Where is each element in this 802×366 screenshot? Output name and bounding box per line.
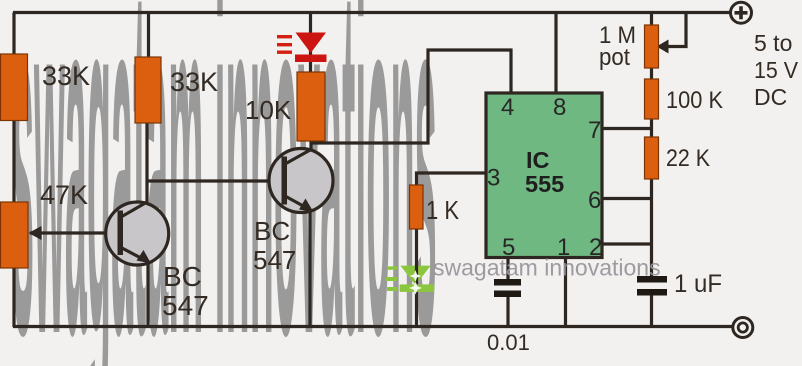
wire 100K to 22K (650, 117, 653, 139)
wire pin1 to bottom rail (564, 257, 567, 327)
svg-text:10K: 10K (245, 95, 292, 125)
svg-text:3: 3 (487, 165, 500, 192)
IC U1 555 (486, 93, 602, 258)
svg-text:47K: 47K (40, 180, 88, 210)
svg-text:8: 8 (553, 94, 566, 121)
wire pin5 to 0.01 cap (506, 257, 509, 281)
resistor 1K (410, 185, 424, 229)
wire Q1 base arrow line (30, 231, 120, 234)
wire LED column (309, 13, 312, 75)
svg-text:7: 7 (588, 117, 601, 144)
wire 1uF to bottom rail (650, 293, 653, 327)
svg-text:33K: 33K (42, 61, 90, 91)
wire 0.01 cap to bottom rail (506, 294, 509, 327)
wire 33K #2 to Q1 collector (145, 121, 148, 204)
svg-text:1 K: 1 K (426, 195, 460, 225)
wire Q1 emitter to bottom rail (146, 260, 149, 327)
wire 1K to bottom rail (415, 227, 418, 327)
svg-text:BC: BC (163, 261, 202, 292)
svg-text:547: 547 (162, 290, 209, 321)
svg-text:6: 6 (588, 187, 601, 214)
LED D1 (296, 33, 327, 54)
node + supply terminal (731, 2, 752, 23)
node output terminal (733, 318, 753, 338)
wire Q2 emitter to bottom rail (308, 209, 311, 327)
wire right column rail to pot (650, 13, 653, 28)
wire pin3 to 1K (417, 173, 487, 187)
arrowhead into 47K (29, 226, 42, 240)
svg-text:33K: 33K (170, 67, 218, 97)
transistor Q1 BC547 (106, 202, 169, 265)
resistor 100K (645, 79, 659, 119)
svg-text:22 K: 22 K (666, 145, 710, 172)
svg-text:swagatam innovations: swagatam innovations (433, 255, 661, 281)
svg-text:IC: IC (526, 147, 550, 173)
resistor 10K (297, 72, 325, 141)
swagatam green logo (386, 264, 435, 295)
wire pin8 drop (554, 13, 557, 95)
wire top rail (13, 11, 731, 14)
wire pin2 (600, 242, 652, 245)
resistor 22K (645, 137, 659, 179)
transistor Q2 BC547 (269, 149, 333, 213)
svg-text:1 uF: 1 uF (674, 270, 722, 298)
svg-text:0.01: 0.01 (487, 330, 530, 355)
resistor R1 33K (1, 54, 28, 121)
pot wiper arrowhead (657, 40, 669, 54)
resistor 1M pot (645, 25, 659, 68)
resistor 47K preset (1, 202, 29, 268)
wire pin6 (600, 197, 652, 200)
svg-text:100 K: 100 K (666, 87, 723, 114)
wire 22K to 1uF (650, 177, 653, 279)
svg-text:pot: pot (599, 44, 630, 71)
svg-text:547: 547 (253, 245, 296, 275)
wire 10K to Q2 collector (309, 139, 312, 152)
wire between 33K and 47K (12, 119, 15, 204)
capacitor 1uF (637, 276, 667, 296)
svg-text:5 to: 5 to (754, 30, 792, 56)
wire left column (12, 13, 15, 57)
wire 47K to bottom rail (12, 266, 15, 327)
wire pin7 (600, 127, 652, 130)
wire Q2 node to pin4 riser (311, 50, 511, 143)
svg-text:4: 4 (501, 94, 514, 121)
wire top rail to 33K #2 (147, 13, 150, 60)
resistor R2 33K (135, 57, 161, 123)
wire pot to 100K (650, 66, 653, 81)
wire Q2 base from node (147, 179, 284, 182)
wire bottom rail (13, 325, 733, 328)
wire pot wiper (662, 13, 686, 47)
svg-text:555: 555 (525, 171, 564, 197)
svg-text:DC: DC (754, 84, 787, 110)
svg-text:BC: BC (254, 216, 290, 246)
svg-text:15 V: 15 V (754, 57, 799, 83)
capacitor 0.01 (494, 279, 521, 297)
LED rays (277, 35, 292, 54)
